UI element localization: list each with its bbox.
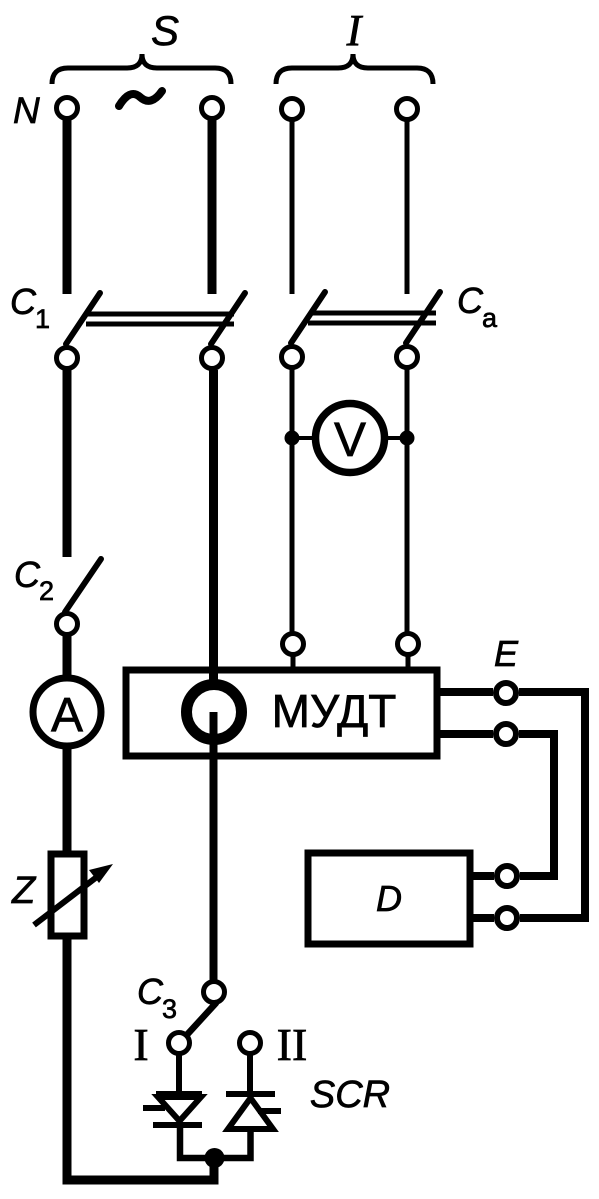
junction dot — [205, 1148, 225, 1168]
terminal top mid-left — [202, 98, 223, 119]
wire W4 upper — [405, 121, 410, 294]
svg-text:SCR: SCR — [310, 1074, 390, 1116]
impedance Z box — [51, 854, 84, 936]
Z arrow shaft — [34, 873, 102, 925]
svg-text:Z: Z — [11, 870, 37, 912]
switch Caa terminal — [282, 347, 303, 368]
switch Cab blade — [406, 292, 440, 343]
current transformer circle — [187, 685, 242, 740]
switch C3 blade — [184, 1003, 216, 1038]
terminal above MUDT left — [283, 634, 304, 655]
svg-text:МУДТ: МУДТ — [272, 685, 397, 737]
Ca linkage double line — [310, 311, 436, 316]
SCR1 anode wire — [176, 1055, 182, 1094]
terminal top left — [57, 98, 78, 119]
svg-text:D: D — [376, 878, 402, 919]
SCR2 anode wire — [215, 1129, 251, 1158]
svg-text:A: A — [51, 689, 83, 742]
voltmeter V — [316, 404, 385, 473]
svg-text:C: C — [457, 280, 484, 321]
terminal II — [240, 1033, 261, 1054]
terminal above MUDT right — [398, 634, 419, 655]
svg-text:II: II — [277, 1019, 308, 1070]
terminal E bottom — [496, 724, 516, 744]
wire W2 mid lower — [210, 712, 218, 981]
SCR2 gate — [258, 1108, 281, 1114]
terminal D bottom — [497, 908, 517, 928]
stub D top — [470, 872, 494, 880]
svg-text:S: S — [151, 7, 179, 54]
svg-text:2: 2 — [39, 576, 54, 606]
wire MUDT to E top — [437, 688, 493, 696]
svg-text:N: N — [13, 90, 40, 131]
svg-text:3: 3 — [162, 994, 177, 1024]
terminal D top — [497, 866, 517, 886]
SCR1 cathode wire — [180, 1125, 214, 1158]
switch C1b blade — [211, 293, 245, 344]
switch Cab terminal — [397, 347, 418, 368]
wire E bottom to D top — [519, 734, 554, 876]
svg-text:C: C — [10, 281, 37, 322]
wire C2 to ammeter — [63, 636, 72, 680]
switch C1b terminal — [202, 348, 223, 369]
wire W2 upper — [208, 120, 217, 294]
SCR1 triangle — [158, 1097, 201, 1121]
voltmeter wire — [292, 436, 407, 440]
stub right — [406, 655, 411, 671]
SCR2 cathode wire top — [247, 1055, 253, 1094]
switch C2 blade — [65, 559, 101, 612]
SCR2 triangle — [228, 1098, 273, 1129]
switch C2 terminal — [57, 614, 78, 635]
ammeter A — [33, 678, 101, 746]
junction dot left of V — [285, 431, 300, 446]
junction dot right of V — [400, 431, 415, 446]
SCR1 anode bar — [156, 1091, 202, 1097]
wire W3 mid — [290, 369, 295, 633]
switch C1a blade — [66, 293, 100, 344]
Z arrowhead — [89, 864, 113, 883]
switch C1a terminal — [57, 348, 78, 369]
terminal top mid-right — [282, 99, 303, 120]
brace I — [276, 54, 433, 84]
SCR2 cathode bar — [226, 1091, 275, 1097]
svg-text:C: C — [14, 554, 41, 595]
svg-text:1: 1 — [35, 304, 50, 334]
wire W4 mid — [405, 369, 410, 633]
wire W1 mid — [63, 370, 72, 557]
svg-text:a: a — [482, 303, 498, 333]
AC tilde — [119, 91, 162, 106]
MUDT box — [126, 670, 437, 756]
stub D bottom — [470, 914, 494, 922]
svg-text:E: E — [494, 633, 519, 674]
wire MUDT to E bottom — [437, 730, 493, 738]
D box — [308, 853, 470, 944]
wire E top to D bottom — [519, 692, 585, 918]
C1 linkage double line — [88, 312, 234, 317]
wire ammeter to Z — [63, 746, 72, 856]
wire W2 mid upper — [209, 370, 218, 686]
switch Caa blade — [291, 292, 325, 343]
terminal E top — [496, 683, 516, 703]
wire Z down and bottom run — [67, 936, 214, 1180]
terminal I — [169, 1033, 190, 1054]
SCR1 cathode bar — [153, 1122, 202, 1128]
svg-text:I: I — [346, 6, 364, 55]
SCR1 gate — [143, 1105, 165, 1111]
svg-text:V: V — [334, 414, 366, 467]
switch C3 top terminal — [204, 982, 225, 1003]
wire W1 upper — [63, 120, 72, 294]
svg-text:C: C — [137, 971, 164, 1012]
svg-text:I: I — [133, 1019, 148, 1070]
terminal top right — [397, 99, 418, 120]
wire W3 upper — [290, 121, 295, 294]
brace S — [52, 54, 231, 84]
stub left — [291, 655, 296, 671]
